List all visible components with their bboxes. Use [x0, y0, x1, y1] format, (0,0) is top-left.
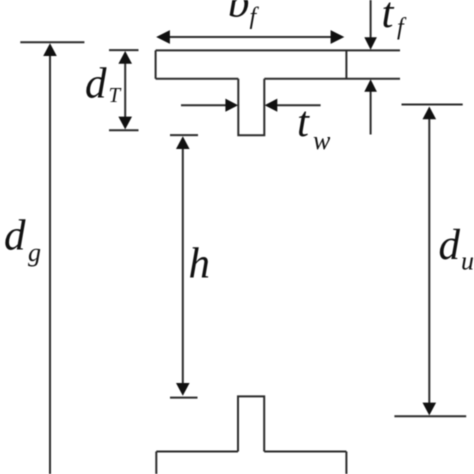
- svg-text:d: d: [4, 213, 26, 260]
- svg-text:t: t: [297, 99, 310, 146]
- svg-text:t: t: [382, 0, 395, 37]
- svg-text:w: w: [313, 126, 331, 155]
- svg-text:b: b: [228, 0, 250, 27]
- svg-text:h: h: [189, 240, 211, 287]
- svg-text:d: d: [439, 222, 461, 269]
- svg-text:d: d: [85, 60, 107, 107]
- svg-text:u: u: [461, 247, 474, 276]
- svg-text:g: g: [28, 238, 41, 267]
- svg-text:T: T: [109, 83, 122, 107]
